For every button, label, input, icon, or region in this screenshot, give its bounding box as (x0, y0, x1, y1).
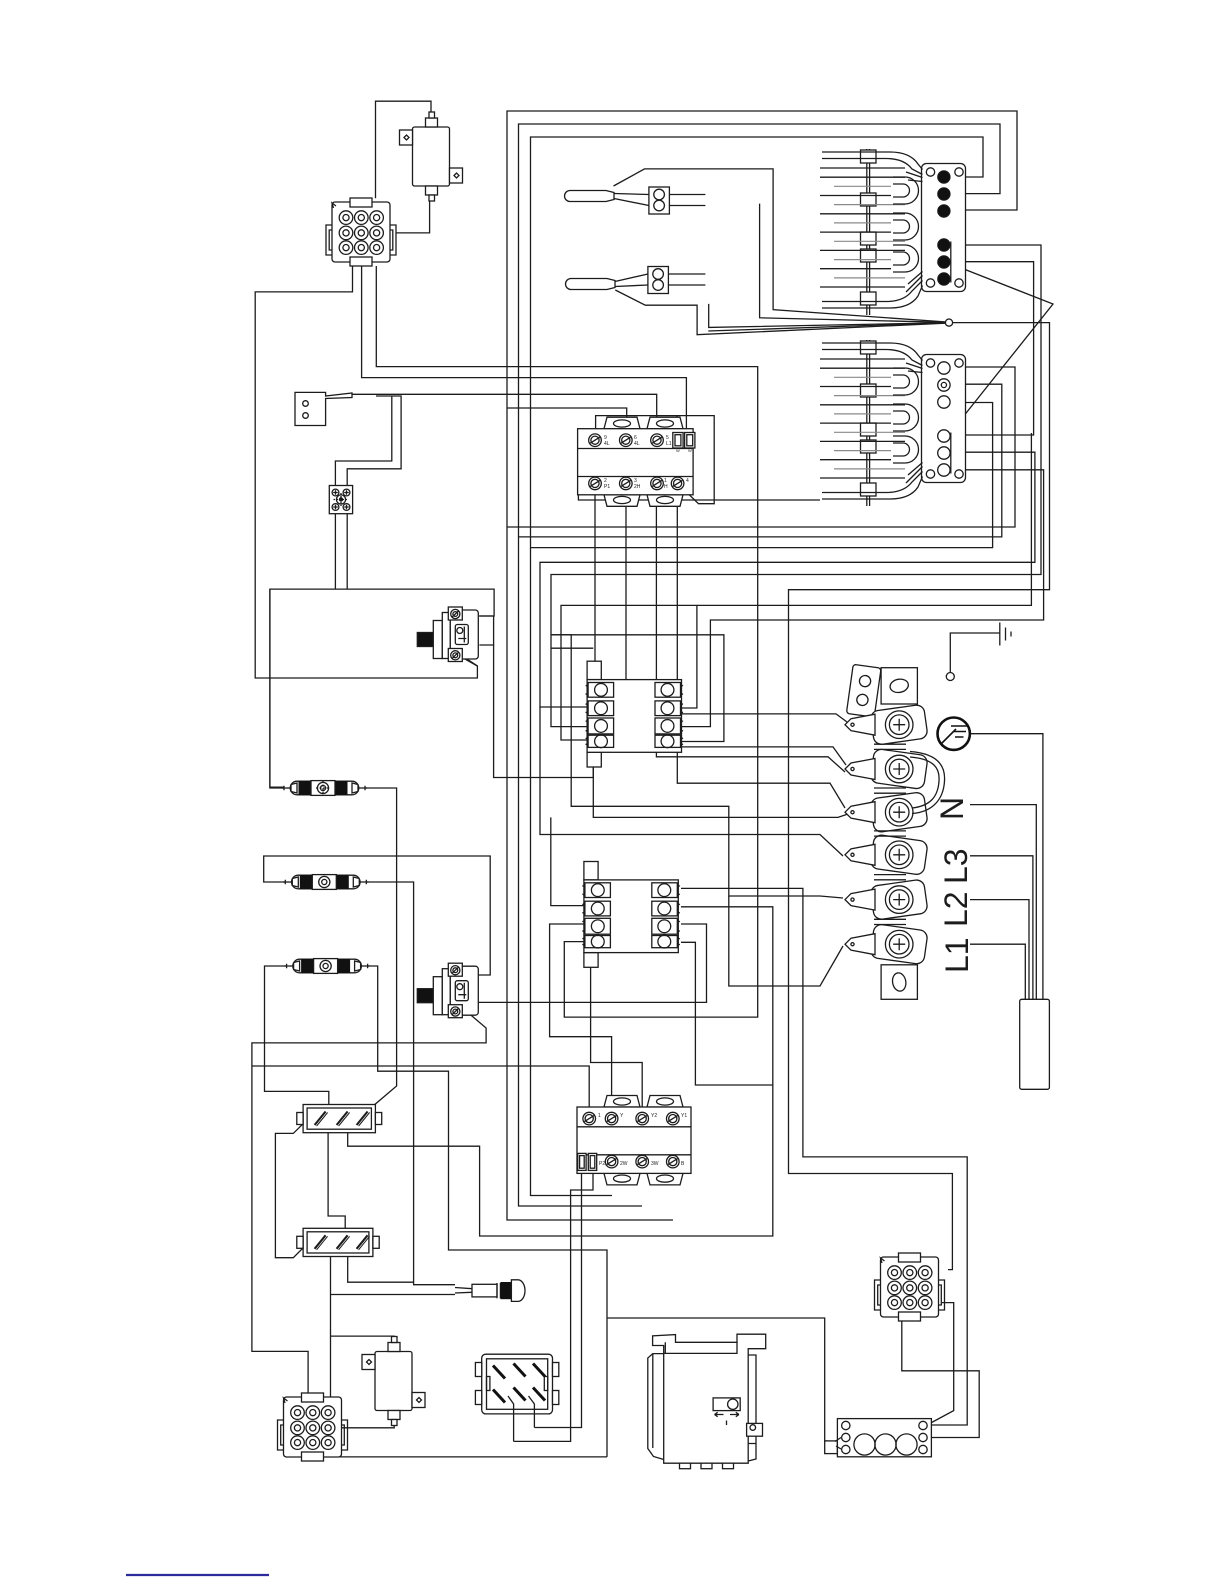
heating element broil top (922, 164, 966, 292)
wire F3 right chain to TB3 stub (367, 966, 607, 1457)
wire T2 bottom to R2 RT3 (456, 924, 706, 1003)
wire bake pin2 to bus B lower (519, 384, 1002, 537)
small connector block (329, 486, 352, 514)
wire K1 top to P1 (376, 101, 432, 198)
svg-text:4: 4 (686, 478, 689, 484)
svg-text:2H: 2H (634, 484, 641, 490)
wire probe1 diagonal to top run (614, 169, 946, 322)
wire bus rect B (519, 124, 1001, 1206)
wire N to cord (970, 805, 1036, 1000)
wire bake pin6 to relay R1 RT3 (681, 470, 1044, 727)
wire R1 bottom tab down to power lug3 feed2 (593, 767, 848, 817)
wire feeder to power lug5 (551, 635, 843, 898)
sensor probe probe1 (565, 191, 615, 202)
wire S1 B2 down to power lug2 (626, 495, 846, 765)
wire S2 spade down to long run (534, 1170, 581, 1427)
wire broil pin4 bar to relay R1 top tab (551, 245, 1041, 727)
power supply terminal block (845, 664, 975, 999)
wire S1 B1 down to power lug1 (595, 495, 847, 722)
surface unit switch S2 (577, 1096, 691, 1185)
wire P1 pin right to mid bus down to relay R2 (376, 266, 757, 1017)
wire T1 right terminal down right to R1 bottom tab (479, 645, 593, 778)
wire F2 chain to T2 top (366, 882, 455, 1285)
wire S2 screw1 loop left down to P2 area (252, 1066, 589, 1107)
svg-text:W: W (688, 448, 692, 453)
wire bake pin3 to bus C lower (531, 403, 993, 548)
svg-text:P1: P1 (604, 484, 610, 490)
svg-text:L3: L3 (938, 848, 974, 884)
relay K1 top (400, 112, 463, 201)
wire R2 bottom tab to S2 screw3 (591, 967, 643, 1107)
wire R1 LT4 to power lug4 feed2 (540, 707, 843, 856)
wire T2 bottom diag to left bus chain to P2 (252, 1005, 486, 1397)
node junction circle (945, 319, 952, 326)
wire T1 bottom diag chain (from P1) (458, 655, 477, 666)
sensor probe probe2 (566, 279, 616, 290)
wire F1 right down to diag block D1 (365, 788, 397, 1113)
wire R2 RT1 chain to TB3 RC1 (681, 888, 967, 1425)
wire D1 left diagonal chain to D2 (275, 1110, 317, 1258)
svg-text:L2: L2 (938, 891, 974, 927)
wire lamp branch (331, 1294, 456, 1296)
wire F1 loop: T1 top feed (270, 589, 494, 788)
wire D2 bottom to pilot lamp prong1 (348, 1257, 414, 1283)
power supply cord (1020, 999, 1050, 1089)
relay K2 bottom (362, 1337, 425, 1426)
wire fan line f2 (709, 304, 945, 328)
wire small connector down pair right (346, 514, 348, 589)
wire F2 left from H856 (264, 856, 491, 975)
wire R2 RT2 down to lower cross run (348, 907, 773, 1236)
earth ground symbol (1000, 623, 1011, 646)
inline fuse F1 (282, 781, 367, 796)
surface unit switch S1 (578, 417, 695, 506)
svg-text:4L: 4L (634, 441, 640, 447)
inline fuse F2 (283, 875, 368, 890)
wire bracket lower2 to small connector (335, 396, 391, 486)
svg-text:P2: P2 (599, 1161, 605, 1167)
wire probe2 lower diagonal to junction (615, 290, 945, 335)
lamp glass panel (475, 1354, 558, 1414)
heating element bake bottom (922, 355, 966, 483)
footer blue line (126, 1574, 269, 1576)
wire T1 top right vertical (480, 616, 494, 645)
wire earth stub top right (950, 633, 1000, 672)
wire K1 bottom to P1 (396, 187, 430, 233)
wire bake pin5 to relay R1 LT2 (540, 452, 1035, 707)
wire D2 bottom through to P2 with lamp branch (330, 1257, 332, 1398)
wire bake element top lead to junction (708, 323, 945, 331)
wire TB3 RC2 chain to P3 bottom pin (902, 1321, 979, 1438)
inline fuse F3 (284, 959, 369, 974)
wire door switch bracket to S1 screw3 (352, 394, 657, 434)
svg-text:N: N (934, 797, 970, 820)
thermostat T1 (417, 607, 478, 662)
svg-text:Y2: Y2 (651, 1113, 657, 1119)
wire F3 left chain to D1 top (265, 966, 329, 1105)
wire chevron diagonals between plates (951, 264, 1053, 432)
wire S1 B3 down to power lug2b (656, 490, 845, 772)
wire TB3 RC1 diag up to P3 (927, 1303, 954, 1425)
connector P1 top-left (326, 198, 396, 266)
wire junction right chain down to connector P3 (789, 323, 1050, 1270)
wire S1 B4 diag down to power lug3 (596, 416, 715, 504)
svg-text:W: W (676, 448, 680, 453)
fuse block D1 (297, 1105, 382, 1133)
wire F1 left lead from bus (270, 589, 284, 787)
wire L2 to cord (970, 900, 1029, 1000)
wire R2 RT4 stub (681, 942, 773, 1085)
wire K2 top lead (331, 1336, 395, 1345)
svg-text:1: 1 (598, 1113, 601, 1119)
svg-text:L1: L1 (666, 441, 672, 447)
wire D1 bottom to D2 top (328, 1133, 345, 1229)
wire L1 to cord (970, 944, 1025, 1000)
wire S2 spade2 to TB3 left (514, 1170, 593, 1441)
wire L3 to cord (970, 856, 1033, 1000)
wire bus rect C (531, 137, 984, 1196)
svg-text:H: H (664, 484, 668, 490)
svg-text:Y1: Y1 (681, 1113, 687, 1119)
door switch bracket (295, 392, 352, 425)
oven control box (648, 1334, 766, 1469)
wire ground circle to cord (971, 734, 1043, 1000)
connector P2 bottom-left (278, 1393, 348, 1461)
wire broil pin5 orthogonal to bake pin4 (951, 262, 1034, 435)
wire branch down to relay R2 LT2 (551, 817, 584, 905)
wire window pin1 to TB3 (513, 1414, 515, 1442)
wire window pin2 to TB3 (533, 1414, 535, 1428)
svg-text:4L: 4L (604, 441, 610, 447)
spark module terminal block (825, 1419, 932, 1457)
svg-text:3W: 3W (651, 1161, 659, 1167)
wire small connector down pair left (334, 514, 336, 589)
wire bus rect A: left bus to broil plate pin3 and range switch S2 (507, 111, 1017, 1220)
connector P3 bottom-right (875, 1253, 945, 1321)
wire R2 LT3 to S2 screw2 (550, 924, 612, 1107)
relay board R2 (582, 862, 679, 968)
relay board R1 (586, 661, 683, 767)
thermostat T2 (417, 963, 478, 1018)
wire feeder branch power lug6 (729, 896, 843, 986)
wire R1 RT2 up to cross run (561, 605, 697, 740)
wire bus A tee to switch S1 spade B (507, 408, 627, 434)
wire bracket lower to small connector (347, 396, 401, 486)
wire R1 RT4 feed to power lug4 (551, 635, 724, 742)
pilot indicator lamp (455, 1280, 525, 1302)
svg-text:2W: 2W (620, 1161, 628, 1167)
wire fan line f3 (760, 204, 945, 323)
wire P1 pin to left bus down to thermostat T1 (255, 266, 477, 678)
svg-text:L1: L1 (939, 937, 975, 973)
wire P1 pin to switch S1 spade (362, 266, 687, 432)
wire bake element bottom lead to S1 (578, 493, 820, 500)
fuse block D2 (297, 1228, 379, 1256)
node open terminal circle (946, 673, 954, 681)
wire K2 bottom lead to P2 pin (340, 1416, 394, 1428)
wire bake pin1 to bus A lower (507, 367, 1015, 527)
wire P2 bottom long run to TB3 (322, 1456, 607, 1458)
